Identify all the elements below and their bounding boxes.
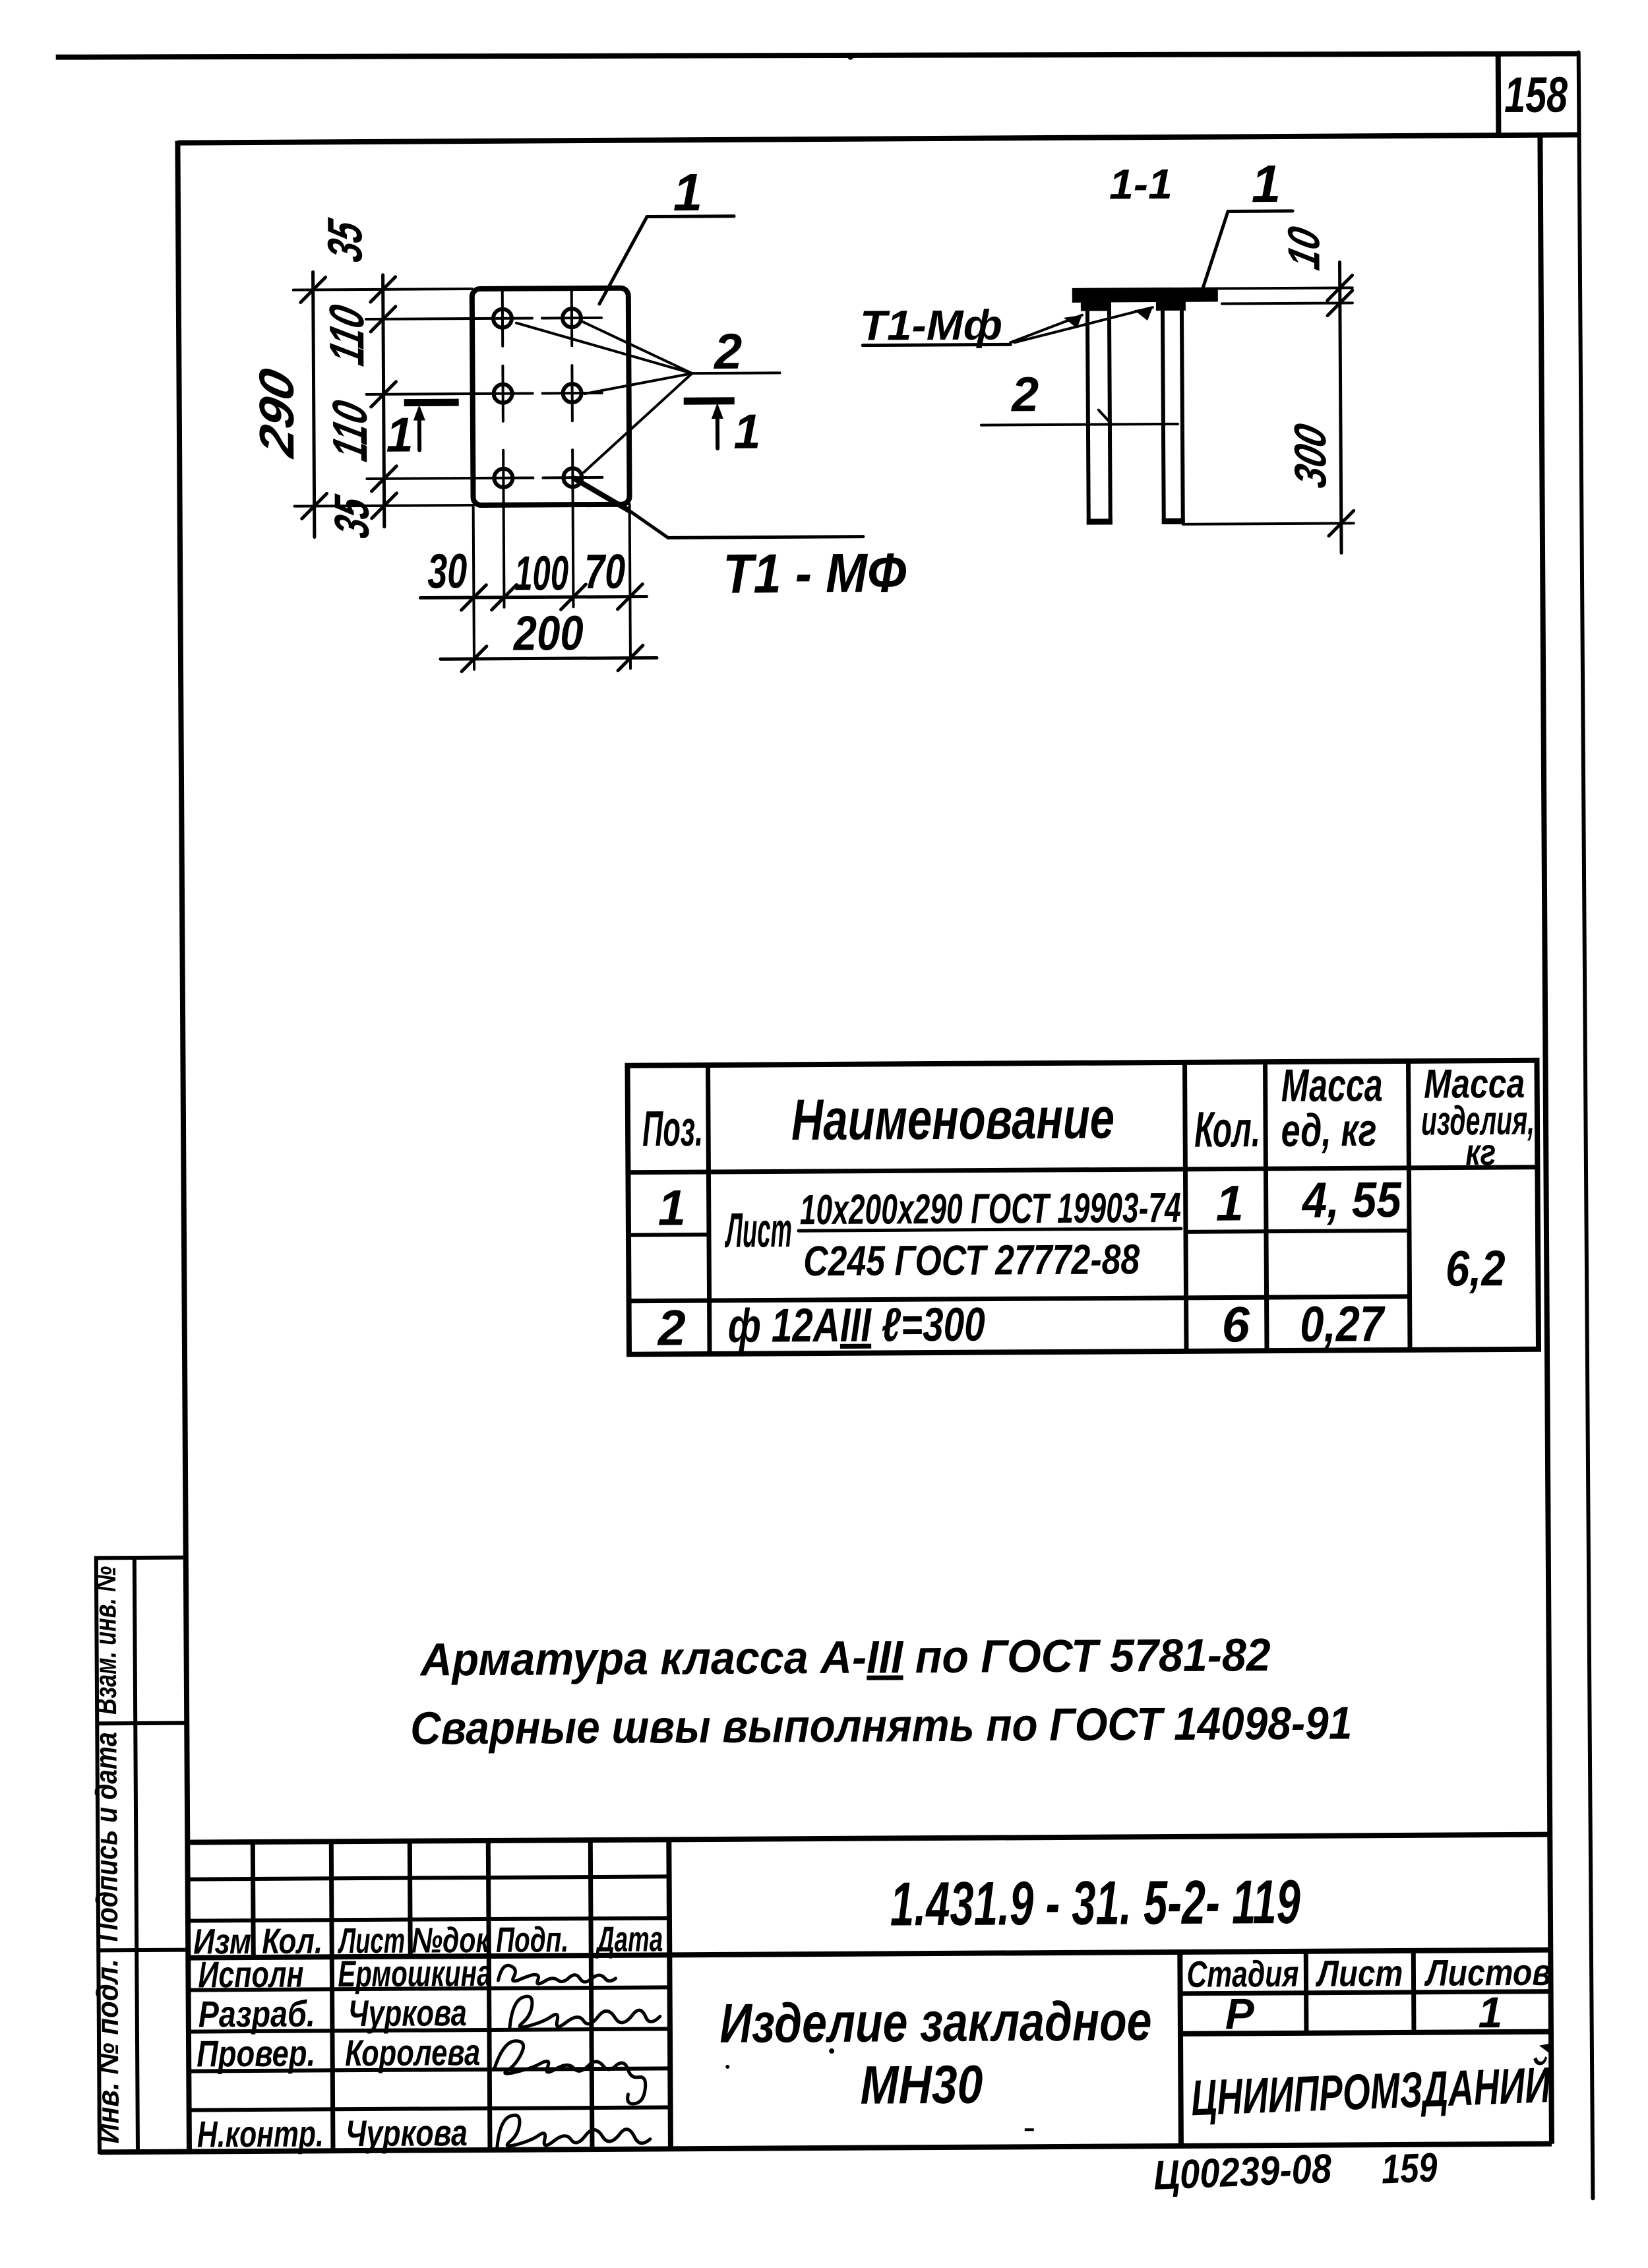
section title 1-1	[1109, 160, 1173, 208]
svg-text:Сварные швы выполнять по Г: Сварные швы выполнять по ГОСТ 14098-91	[410, 1697, 1352, 1754]
section mark left	[386, 402, 459, 462]
svg-text:Чуркова: Чуркова	[348, 1992, 467, 2034]
sheet outer right edge	[1579, 52, 1593, 2198]
staff table grid	[187, 1839, 671, 2151]
leader 2 (plan, four branches)	[516, 321, 780, 472]
label Vzam. inv. No	[88, 1566, 123, 1715]
page number box 158	[1498, 51, 1568, 137]
svg-text:Инв. № подл.: Инв. № подл.	[90, 1959, 125, 2143]
item mass 6,2	[1446, 1241, 1506, 1297]
speck	[848, 55, 853, 60]
row1 mass 4,55	[1301, 1172, 1403, 1229]
row1 qty 1	[1215, 1175, 1244, 1231]
header Poz.	[642, 1101, 703, 1157]
svg-text:Поз.: Поз.	[642, 1101, 703, 1157]
staff header Podp	[496, 1920, 568, 1960]
staff row Razrab	[198, 1992, 467, 2035]
weld leader T1-MF (plan)	[572, 475, 906, 605]
handwritten inventory number	[1153, 2146, 1333, 2199]
svg-text:110: 110	[319, 300, 374, 370]
svg-text:1: 1	[673, 163, 702, 222]
svg-text:30: 30	[427, 543, 467, 598]
svg-text:Подп.: Подп.	[496, 1920, 568, 1960]
dimension line 290 (left)	[249, 272, 327, 537]
header Massa izdeliya, kg	[1420, 1061, 1535, 1173]
svg-text:200: 200	[512, 605, 584, 661]
svg-text:Чуркова: Чуркова	[346, 2112, 468, 2154]
row1 name List fraction	[724, 1184, 1181, 1285]
sheet top rule	[56, 48, 1578, 62]
svg-text:1: 1	[1215, 1175, 1244, 1231]
leader 1 (plan)	[599, 163, 735, 304]
listov value 1	[1478, 1988, 1502, 2037]
svg-text:1: 1	[1478, 1988, 1502, 2037]
plate item 1 (section, edge view)	[1072, 288, 1218, 303]
bar leg 2 right	[1161, 306, 1185, 522]
svg-text:159: 159	[1380, 2145, 1438, 2192]
svg-text:300: 300	[1285, 419, 1335, 492]
header List	[1315, 1952, 1403, 1994]
hole A2 (top-right)	[542, 290, 601, 346]
plate item 1 (plan)	[472, 288, 630, 505]
stage mini table	[1180, 1950, 1551, 2034]
title MN30	[860, 2055, 983, 2116]
header Listov	[1424, 1951, 1552, 1994]
weld bead left	[1081, 301, 1111, 311]
svg-text:Подпись и дата: Подпись и дата	[88, 1732, 124, 1942]
svg-text:Лист: Лист	[724, 1202, 792, 1258]
svg-text:Т1-Мф: Т1-Мф	[860, 301, 1002, 349]
header Massa ed, kg	[1281, 1059, 1383, 1156]
svg-text:Разраб.: Разраб.	[198, 1992, 315, 2035]
row2 pos 2	[656, 1300, 686, 1356]
staff row Ispoln	[198, 1952, 491, 1996]
parts table grid	[628, 1060, 1539, 1355]
label Inv. No podl.	[90, 1959, 125, 2143]
signature Koroleva	[495, 2040, 646, 2105]
artifact blob on right border	[1539, 2043, 1553, 2056]
svg-text:Взам. инв. №: Взам. инв. №	[88, 1566, 123, 1715]
handwritten page 159	[1380, 2145, 1438, 2192]
svg-text:Ермошкина: Ермошкина	[338, 1952, 491, 1994]
extension lines rows	[293, 289, 534, 506]
svg-text:1-1: 1-1	[1109, 160, 1173, 208]
svg-text:35: 35	[324, 491, 379, 543]
row2 mass 0,27	[1300, 1296, 1386, 1353]
svg-text:2: 2	[656, 1300, 686, 1356]
svg-text:Ц00239-08: Ц00239-08	[1153, 2146, 1333, 2199]
svg-text:1: 1	[657, 1180, 686, 1236]
svg-text:1: 1	[386, 408, 413, 462]
weld label T1-Mf with leaders (section)	[860, 300, 1153, 350]
svg-text:10: 10	[1278, 222, 1329, 274]
svg-text:Стадия: Стадия	[1186, 1953, 1298, 1995]
hole A1 (top-left)	[493, 291, 512, 346]
row2 name f12AIII l=300	[728, 1299, 985, 1353]
svg-text:кг: кг	[1465, 1131, 1496, 1173]
svg-text:ЦНИИПРОМЗДАНИЙ: ЦНИИПРОМЗДАНИЙ	[1190, 2056, 1552, 2126]
stage value R	[1225, 1989, 1255, 2038]
hole B2 (mid-right)	[542, 365, 601, 421]
header Stadiya	[1186, 1953, 1298, 1995]
svg-text:158: 158	[1504, 67, 1568, 123]
svg-text:Листов: Листов	[1424, 1951, 1552, 1994]
staff header Data	[595, 1919, 663, 1959]
signature Ermoshkina	[498, 1965, 615, 1984]
header Naimenovanie	[791, 1085, 1115, 1152]
svg-text:Арматура класса А-III по Г: Арматура класса А-III по ГОСТ 5781-82	[419, 1629, 1271, 1685]
extension lines (section)	[1182, 288, 1354, 524]
signature Churkova 2	[497, 2114, 650, 2147]
hole C2 (bottom-right)	[543, 450, 602, 506]
svg-text:Р: Р	[1225, 1989, 1255, 2038]
weld bead right	[1156, 301, 1186, 311]
svg-text:Масса: Масса	[1281, 1059, 1382, 1111]
signature Churkova	[510, 1996, 660, 2028]
staff header List	[337, 1921, 405, 1961]
title Izdelie zakladnoe	[719, 1990, 1152, 2054]
svg-text:2: 2	[713, 324, 743, 380]
svg-text:4, 55: 4, 55	[1301, 1172, 1403, 1229]
svg-text:С245 ГОСТ 27772-88: С245 ГОСТ 27772-88	[803, 1235, 1140, 1285]
dimension line 35/110/110/35	[317, 214, 397, 543]
svg-text:100: 100	[514, 545, 568, 600]
staff row N.kontr	[197, 2112, 468, 2155]
svg-text:ед, кг: ед, кг	[1281, 1104, 1376, 1156]
svg-text:Провер.: Провер.	[197, 2032, 315, 2074]
svg-text:Лист: Лист	[1315, 1952, 1403, 1994]
row2 qty 6	[1221, 1297, 1250, 1353]
dimension line 200	[440, 605, 657, 671]
section mark right	[684, 401, 761, 460]
svg-text:1: 1	[1251, 154, 1281, 213]
staff header No dok	[412, 1920, 491, 1961]
bar leg 2 left	[1085, 306, 1113, 522]
svg-text:Н.контр.: Н.контр.	[197, 2112, 324, 2155]
svg-text:35: 35	[317, 214, 372, 266]
document number 1.431.9-31.5-2-119	[890, 1867, 1301, 1939]
svg-text:Королева: Королева	[345, 2031, 480, 2073]
staff row Prover	[197, 2031, 480, 2074]
svg-text:Т1 - МФ: Т1 - МФ	[723, 541, 907, 605]
svg-text:70: 70	[584, 544, 625, 599]
svg-text:6: 6	[1221, 1297, 1250, 1353]
extension lines below plate	[473, 505, 630, 669]
title block outline and main dividers	[187, 1835, 1552, 2152]
leader 1 (section)	[1202, 154, 1293, 289]
row1 pos 1	[657, 1180, 686, 1236]
dimension line 30/100/70	[420, 543, 647, 611]
svg-text:2: 2	[1010, 367, 1039, 421]
org name TsNIIPromzdaniy	[1190, 2056, 1552, 2126]
svg-text:Исполн: Исполн	[198, 1953, 303, 1996]
svg-text:1: 1	[733, 404, 761, 459]
leader 2 (section)	[981, 366, 1178, 425]
staff header Izm	[193, 1922, 251, 1962]
svg-text:Наименование: Наименование	[791, 1085, 1115, 1152]
svg-text:ф 12АIII ℓ=300: ф 12АIII ℓ=300	[728, 1299, 985, 1353]
attachment block grid	[96, 1558, 189, 2153]
svg-text:0,27: 0,27	[1300, 1296, 1386, 1353]
header Kol.	[1194, 1101, 1260, 1158]
svg-text:6,2: 6,2	[1446, 1241, 1506, 1297]
svg-text:Кол.: Кол.	[1194, 1101, 1260, 1158]
svg-text:290: 290	[249, 363, 304, 462]
specks near title block	[725, 2047, 1034, 2133]
staff header Kol	[262, 1921, 322, 1961]
dimension line 10/300 (section)	[1278, 222, 1354, 553]
label Podpis i data	[88, 1732, 124, 1942]
svg-text:Изделие закладное: Изделие закладное	[719, 1990, 1152, 2054]
svg-text:МН30: МН30	[860, 2055, 983, 2116]
svg-text:Дата: Дата	[595, 1919, 663, 1959]
hole B1 (mid-left)	[493, 366, 512, 421]
svg-text:10x200x290 ГОСТ 19903-74: 10x200x290 ГОСТ 19903-74	[800, 1184, 1181, 1233]
svg-text:110: 110	[322, 396, 377, 466]
note line 2	[410, 1697, 1352, 1754]
note line 1	[419, 1629, 1271, 1685]
svg-text:1.431.9 - 31. 5-2- 119: 1.431.9 - 31. 5-2- 119	[890, 1867, 1301, 1939]
hole C1 (bottom-left)	[494, 450, 512, 506]
